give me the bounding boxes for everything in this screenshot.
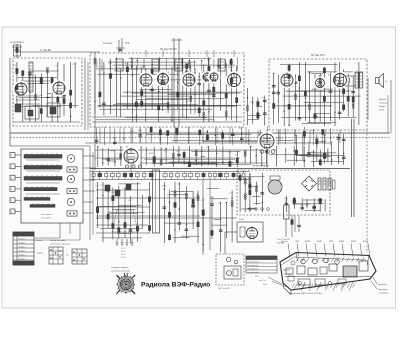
svg-text:6П3: 6П3 bbox=[255, 276, 258, 278]
svg-text:ст бан ВЧ: ст бан ВЧ bbox=[40, 49, 51, 52]
svg-text:6Д поз: 6Д поз bbox=[281, 241, 287, 243]
svg-text:УКВ: УКВ bbox=[125, 43, 130, 45]
svg-text:6Х2П: 6Х2П bbox=[351, 241, 357, 243]
svg-text:36 бан питания: 36 бан питания bbox=[302, 154, 320, 157]
svg-text:Радиола ВЭФ-Радио: Радиола ВЭФ-Радио bbox=[141, 281, 210, 288]
svg-text:Сетевой выкл: Сетевой выкл bbox=[247, 261, 259, 264]
svg-text:Сетевой выкл: Сетевой выкл bbox=[247, 268, 259, 271]
svg-text:6по4: 6по4 bbox=[263, 284, 267, 286]
svg-text:6П14П: 6П14П bbox=[276, 138, 283, 140]
svg-text:электротехнический: электротехнический bbox=[111, 270, 130, 273]
svg-text:сеть прием: сеть прием bbox=[41, 214, 52, 216]
svg-text:с1,0 прием: с1,0 прием bbox=[41, 218, 52, 220]
svg-text:Датчик: Датчик bbox=[379, 99, 386, 101]
svg-text:6П14: 6П14 bbox=[363, 241, 369, 243]
svg-text:Сетевой выкл: Сетевой выкл bbox=[247, 264, 259, 267]
svg-text:с выпрямит.: с выпрямит. bbox=[378, 293, 389, 295]
svg-text:бан ПЧ: бан ПЧ bbox=[259, 280, 266, 282]
svg-text:Радио-: Радио- bbox=[379, 106, 386, 108]
svg-text:прием 0: прием 0 bbox=[19, 239, 26, 241]
svg-text:6Н1П: 6Н1П bbox=[239, 219, 245, 221]
svg-text:ЭДГ бан ЭПУ: ЭДГ бан ЭПУ bbox=[218, 288, 231, 290]
svg-text:прием 1: прием 1 bbox=[19, 243, 26, 245]
svg-text:6Н3П: 6Н3П bbox=[339, 241, 345, 243]
svg-text:прием 3: прием 3 bbox=[19, 251, 26, 253]
svg-text:6И1П: 6И1П bbox=[140, 67, 146, 69]
svg-text:положения переключ: положения переключ bbox=[50, 244, 70, 246]
svg-text:нородные издание: нородные издание bbox=[111, 267, 129, 269]
svg-text:кнопка: кнопка bbox=[36, 240, 43, 242]
svg-text:Выбор контроля: Выбор контроля bbox=[50, 240, 65, 242]
svg-text:Сетевой выкл: Сетевой выкл bbox=[247, 271, 259, 274]
svg-text:метр: метр bbox=[379, 110, 385, 112]
svg-text:по динамика: по динамика bbox=[10, 42, 24, 44]
svg-text:6Е1П: 6Е1П bbox=[149, 153, 155, 155]
svg-text:ЗЧ бан УНЧ: ЗЧ бан УНЧ bbox=[311, 54, 325, 57]
svg-text:ЛЗР: ЛЗР bbox=[295, 241, 300, 243]
svg-text:ТК/ПТ: ТК/ПТ bbox=[37, 253, 44, 255]
svg-text:прием 4: прием 4 bbox=[19, 255, 26, 257]
svg-text:Переключ.: Переключ. bbox=[378, 284, 388, 286]
svg-text:Антенна: Антенна bbox=[103, 42, 113, 45]
svg-text:6К4П: 6К4П bbox=[183, 67, 189, 69]
svg-text:Предохран.: Предохран. bbox=[378, 289, 389, 291]
svg-text:Автотрансф 6И1П 6К3 бан УПЧ 6л: Автотрансф 6И1П 6К3 бан УПЧ 6лн bbox=[289, 292, 322, 295]
svg-text:ЗЧ бан ПЧ/ЧМ: ЗЧ бан ПЧ/ЧМ bbox=[160, 48, 177, 51]
svg-text:6И1П: 6И1П bbox=[305, 241, 311, 243]
svg-text:прием 5: прием 5 bbox=[19, 259, 26, 261]
svg-text:6К4П: 6К4П bbox=[317, 241, 322, 243]
svg-text:6К4П: 6К4П bbox=[228, 67, 234, 69]
svg-text:6Н3П: 6Н3П bbox=[202, 65, 208, 67]
svg-text:прием 2: прием 2 bbox=[19, 247, 26, 249]
svg-text:УКВ: УКВ bbox=[329, 241, 333, 243]
svg-text:Стрелка: Стрелка bbox=[379, 103, 388, 105]
